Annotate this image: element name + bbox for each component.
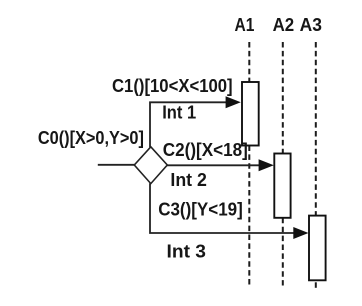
svg-text:C2()[X<18]: C2()[X<18] xyxy=(163,140,248,160)
svg-text:A3: A3 xyxy=(300,15,322,35)
lifeline A1 (dashed, lower segment) xyxy=(248,146,250,286)
svg-text:C3()[Y<19]: C3()[Y<19] xyxy=(158,200,243,220)
svg-text:Int 3: Int 3 xyxy=(167,242,207,262)
wire: C2 message line xyxy=(167,164,260,166)
svg-text:A2: A2 xyxy=(273,15,295,35)
svg-text:C0()[X>0,Y>0]: C0()[X>0,Y>0] xyxy=(38,128,144,148)
arrowhead C3 xyxy=(293,227,308,239)
lifeline A3 (dashed, lower segment) xyxy=(315,282,317,289)
svg-text:C1()[10<X<100]: C1()[10<X<100] xyxy=(112,76,233,96)
wire: branch down from diamond to C3 message xyxy=(150,183,295,233)
wire: branch up from diamond to C1 message xyxy=(150,102,227,147)
lifeline A2 (dashed, upper segment) xyxy=(282,42,284,154)
activation bar A1 xyxy=(242,82,259,146)
decision diamond xyxy=(134,147,167,184)
svg-text:Int 2: Int 2 xyxy=(170,170,207,190)
lifeline A2 (dashed, lower segment) xyxy=(282,218,284,286)
wire: C0 tail line into decision xyxy=(98,164,135,166)
svg-text:A1: A1 xyxy=(235,15,255,35)
activation bar A3 xyxy=(309,216,326,281)
arrowhead C2 xyxy=(259,159,274,171)
lifeline A3 (dashed, upper segment) xyxy=(315,42,317,216)
activation bar A2 xyxy=(274,154,290,218)
svg-text:Int 1: Int 1 xyxy=(162,103,196,123)
lifeline A1 (dashed, upper segment) xyxy=(248,42,250,82)
arrowhead C1 xyxy=(226,96,241,108)
